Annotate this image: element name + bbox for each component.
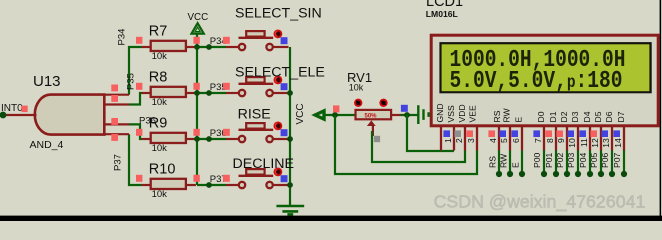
svg-text:D3: D3 bbox=[570, 111, 580, 122]
svg-text:5.0V,5.0V,p:180: 5.0V,5.0V,p:180 bbox=[450, 67, 623, 95]
node pin 5 terminal bbox=[507, 171, 513, 177]
junction rail row 3 bbox=[194, 136, 200, 142]
svg-text:RW: RW bbox=[502, 107, 512, 122]
svg-text:GND: GND bbox=[435, 103, 445, 122]
svg-text:10k: 10k bbox=[152, 51, 168, 62]
LCD pin 13 logic square bbox=[601, 130, 608, 137]
svg-text:10: 10 bbox=[567, 138, 577, 148]
svg-text:RS: RS bbox=[492, 110, 502, 122]
LCD U-LCD1 body bbox=[431, 35, 658, 126]
LCD pin 10 logic square bbox=[567, 130, 574, 137]
LCD pin 5 logic square bbox=[499, 130, 506, 137]
LCD screen bbox=[439, 42, 651, 93]
wire LCD pin 12 down bbox=[600, 150, 602, 174]
wire LCD pin 7 down bbox=[543, 150, 545, 174]
power symbol VCC (RV1, left arrow) bbox=[314, 110, 325, 120]
RV1 knob right bbox=[379, 99, 387, 107]
svg-text:AND_4: AND_4 bbox=[30, 139, 64, 151]
svg-text:10k: 10k bbox=[152, 97, 168, 108]
LCD pin 1 stub bbox=[453, 127, 455, 151]
svg-text:3: 3 bbox=[466, 138, 476, 143]
node pin 14 terminal bbox=[621, 171, 627, 177]
svg-text:E: E bbox=[510, 162, 520, 168]
junction dot2 row 2 bbox=[206, 90, 212, 96]
svg-text:R10: R10 bbox=[149, 162, 176, 178]
resistor R8 bbox=[142, 87, 196, 97]
svg-text:CSDN @weixin_47626041: CSDN @weixin_47626041 bbox=[434, 192, 646, 213]
svg-text:INT0: INT0 bbox=[1, 103, 23, 114]
gate U13 input pin 1 stub bbox=[104, 94, 129, 96]
logic square R9 pin1 bbox=[136, 129, 142, 136]
svg-text:P05: P05 bbox=[589, 152, 599, 168]
svg-text:P34: P34 bbox=[117, 29, 128, 46]
node pin 4 terminal bbox=[496, 171, 502, 177]
junction column row 4 bbox=[287, 182, 293, 188]
svg-text:P06: P06 bbox=[600, 152, 610, 168]
wire LCD pin 13 down bbox=[611, 150, 613, 174]
svg-text:11: 11 bbox=[579, 138, 589, 147]
junction dot2 row 1 bbox=[206, 44, 212, 50]
button SELECT_ELE bbox=[226, 77, 289, 96]
logic square R7 pin1 bbox=[136, 37, 142, 44]
wire LCD pin1 (VSS to ground) bbox=[407, 115, 454, 151]
junction rail row 2 bbox=[194, 90, 200, 96]
ground (LCD, rotated) bbox=[418, 105, 428, 124]
logic square gate input 3 bbox=[111, 118, 118, 125]
gate U13 input pin 3 stub bbox=[104, 123, 129, 125]
LCD pin 7 stub bbox=[543, 127, 545, 151]
svg-text:14: 14 bbox=[613, 138, 623, 148]
junction column row 2 bbox=[287, 90, 293, 96]
svg-text:4: 4 bbox=[488, 138, 498, 143]
LCD pin 9 stub bbox=[566, 127, 568, 151]
LCD pin 3 stub bbox=[476, 127, 478, 151]
svg-text:SELECT_ELE: SELECT_ELE bbox=[235, 64, 325, 80]
svg-text:D4: D4 bbox=[582, 111, 592, 122]
LCD pin 13 stub bbox=[611, 127, 613, 151]
logic square RV1 wiper (gray) bbox=[374, 136, 380, 142]
wire LCD pin 14 down bbox=[623, 150, 625, 174]
LCD pin 1 logic square bbox=[443, 130, 450, 137]
logic square R10 pin1 bbox=[136, 175, 142, 182]
svg-text:7: 7 bbox=[533, 138, 543, 143]
node pin 10 terminal bbox=[575, 171, 581, 177]
LCD pin 4 logic square bbox=[488, 130, 495, 137]
svg-text:2: 2 bbox=[454, 138, 464, 143]
svg-text:P35: P35 bbox=[126, 73, 137, 90]
LCD pin 9 logic square bbox=[556, 130, 563, 137]
button SELECT_SIN bbox=[226, 31, 289, 50]
logic square gate input 4 bbox=[111, 134, 118, 141]
junction column row 3 bbox=[287, 136, 293, 142]
svg-text:P01: P01 bbox=[544, 152, 554, 168]
wire LCD pin 11 down bbox=[589, 150, 591, 174]
svg-text:10k: 10k bbox=[349, 83, 364, 93]
actuator icon DECLINE bbox=[274, 168, 283, 177]
logic square R8 pin1 bbox=[136, 83, 142, 90]
logic square label P35 bbox=[223, 83, 230, 90]
wire LCD pin 6 down bbox=[521, 150, 523, 174]
junction dot2 row 3 bbox=[206, 136, 212, 142]
svg-text:VEE: VEE bbox=[467, 105, 477, 122]
LCD pin 3 logic square bbox=[466, 130, 473, 137]
node pin 13 terminal bbox=[609, 171, 615, 177]
wire LCD pin2 (VDD to wiper) bbox=[372, 131, 465, 162]
LCD pin 14 stub bbox=[623, 127, 625, 151]
svg-text:P02: P02 bbox=[555, 152, 565, 168]
node pin 6 terminal bbox=[519, 171, 525, 177]
junction VCC/pin3 branch bbox=[332, 112, 338, 118]
wire net P35 (gate pin2 to R8) bbox=[129, 93, 142, 105]
wire LCD pin 4 down bbox=[498, 150, 500, 174]
svg-text:U13: U13 bbox=[33, 73, 61, 90]
logic square button SELECT_SIN bbox=[281, 37, 288, 44]
svg-text:RW: RW bbox=[498, 153, 508, 168]
resistor R7 bbox=[142, 41, 196, 51]
resistor R10 bbox=[142, 179, 196, 189]
power symbol VCC (top rail) bbox=[192, 23, 204, 33]
LCD pin 7 logic square bbox=[533, 130, 540, 137]
wire VCC to RV1 bbox=[325, 114, 356, 116]
logic square gate input 2 bbox=[111, 95, 118, 102]
node pin 9 terminal bbox=[564, 171, 570, 177]
wire LCD pin 8 down bbox=[555, 150, 557, 174]
svg-text:E: E bbox=[514, 117, 524, 123]
svg-text:10k: 10k bbox=[152, 143, 168, 154]
logic square button RISE bbox=[281, 129, 288, 136]
node pin 11 terminal bbox=[587, 171, 593, 177]
svg-text:R8: R8 bbox=[149, 70, 168, 86]
svg-text:RS: RS bbox=[487, 156, 497, 168]
logic square label P37 bbox=[223, 175, 230, 182]
svg-text:RISE: RISE bbox=[238, 106, 271, 122]
LCD pin 4 stub bbox=[498, 127, 500, 151]
svg-text:9: 9 bbox=[556, 138, 566, 143]
wire VCC rail vertical bbox=[196, 34, 198, 185]
logic square gate input 1 bbox=[111, 85, 118, 92]
wire row P37 (rail to button) bbox=[197, 184, 226, 186]
potentiometer RV1 bbox=[356, 110, 401, 136]
wire LCD pin 9 down bbox=[566, 150, 568, 174]
LCD pin 6 stub bbox=[521, 127, 523, 151]
button DECLINE bbox=[226, 169, 289, 188]
gate U13 output stub bbox=[6, 114, 36, 116]
window edge line bbox=[660, 0, 662, 221]
AND gate U13 (AND_4, mirrored) bbox=[35, 95, 105, 135]
LCD pin 14 logic square bbox=[613, 130, 620, 137]
svg-text:R9: R9 bbox=[149, 116, 168, 132]
wire row P36 (rail to button) bbox=[197, 138, 226, 140]
LCD pin 10 stub bbox=[577, 127, 579, 151]
svg-text:LM016L: LM016L bbox=[426, 9, 458, 19]
wire button common column bbox=[289, 47, 291, 206]
node INT0 terminal bbox=[0, 112, 6, 119]
wire net P36 (gate pin3 to R9) bbox=[129, 124, 142, 139]
logic square RV1 pin1 bbox=[333, 105, 339, 112]
actuator icon SELECT_ELE bbox=[274, 76, 283, 85]
logic square button DECLINE bbox=[281, 175, 288, 182]
junction rail row 1 bbox=[194, 44, 200, 50]
gate U13 input pin 4 stub bbox=[104, 133, 129, 135]
wire net P37 (gate pin4 to R10) bbox=[129, 134, 142, 185]
svg-text:P04: P04 bbox=[578, 152, 588, 168]
svg-text:D2: D2 bbox=[559, 111, 569, 122]
svg-text:12: 12 bbox=[590, 138, 600, 148]
logic square label P34 bbox=[223, 37, 230, 44]
LCD pin 2 logic square bbox=[454, 130, 461, 137]
svg-text:10k: 10k bbox=[152, 189, 168, 200]
wire row P34 (rail to button) bbox=[197, 46, 226, 48]
LCD pin 11 logic square bbox=[579, 130, 586, 137]
actuator icon SELECT_SIN bbox=[274, 30, 283, 39]
wire LCD pin 5 down bbox=[509, 150, 511, 174]
resistor R9 bbox=[142, 133, 196, 143]
logic square button SELECT_ELE bbox=[281, 83, 288, 90]
svg-text:DECLINE: DECLINE bbox=[233, 156, 295, 172]
svg-text:D6: D6 bbox=[604, 111, 614, 122]
svg-text:VCC: VCC bbox=[188, 12, 209, 23]
RV1 knob left bbox=[354, 99, 362, 107]
wire net P34 (gate pin1 to R7) bbox=[129, 47, 142, 95]
node pin 12 terminal bbox=[598, 171, 604, 177]
wire INT0 bbox=[0, 114, 7, 116]
LCD pin 12 logic square bbox=[590, 130, 597, 137]
svg-text:50%: 50% bbox=[365, 113, 378, 119]
wire row P35 (rail to button) bbox=[197, 92, 226, 94]
logic square label P36 bbox=[223, 129, 230, 136]
svg-text:13: 13 bbox=[601, 138, 611, 148]
svg-text:P03: P03 bbox=[566, 152, 576, 168]
wire LCD pin3 (VEE to VCC) bbox=[335, 115, 477, 174]
svg-text:5: 5 bbox=[499, 138, 509, 143]
gate U13 input pin 2 stub bbox=[104, 103, 129, 105]
actuator icon RISE bbox=[274, 122, 283, 131]
svg-text:1: 1 bbox=[443, 138, 453, 143]
logic square rail row 1 bbox=[193, 37, 199, 44]
svg-text:VSS: VSS bbox=[446, 105, 456, 122]
junction ground branch bbox=[404, 112, 410, 118]
LCD pin 8 stub bbox=[555, 127, 557, 151]
wire LCD pin 10 down bbox=[577, 150, 579, 174]
svg-text:P37: P37 bbox=[113, 154, 124, 171]
svg-text:P00: P00 bbox=[532, 152, 542, 168]
svg-text:6: 6 bbox=[511, 138, 521, 143]
LCD pin separator left bbox=[440, 127, 442, 151]
svg-text:VDD: VDD bbox=[457, 104, 467, 122]
LCD pin 8 logic square bbox=[545, 130, 552, 137]
svg-text:D7: D7 bbox=[616, 111, 626, 122]
LCD pin 11 stub bbox=[589, 127, 591, 151]
junction dot2 row 4 bbox=[206, 182, 212, 188]
logic square rail row 4 bbox=[193, 175, 199, 182]
LCD pin 12 stub bbox=[600, 127, 602, 151]
node pin 7 terminal bbox=[541, 171, 547, 177]
logic square rail row 2 bbox=[193, 83, 199, 90]
bottom bar bbox=[0, 216, 662, 221]
logic square RV1 pin2 (blue) bbox=[401, 105, 408, 112]
logic square INT0 bbox=[21, 106, 27, 113]
LCD pin 5 stub bbox=[509, 127, 511, 151]
svg-text:SELECT_SIN: SELECT_SIN bbox=[235, 5, 322, 21]
wire RV1 right to ground bbox=[401, 114, 418, 116]
ground (button column) bbox=[276, 206, 304, 214]
svg-text:R7: R7 bbox=[149, 24, 168, 40]
svg-text:D0: D0 bbox=[536, 111, 546, 122]
button RISE bbox=[226, 123, 289, 142]
LCD pin 2 stub bbox=[464, 127, 466, 151]
svg-text:P07: P07 bbox=[612, 152, 622, 168]
LCD pin 6 logic square bbox=[511, 130, 518, 137]
svg-text:D5: D5 bbox=[593, 111, 603, 122]
svg-text:VCC: VCC bbox=[295, 103, 306, 124]
svg-text:8: 8 bbox=[545, 138, 555, 143]
node pin 8 terminal bbox=[553, 171, 559, 177]
svg-text:D1: D1 bbox=[548, 111, 558, 122]
logic square rail row 3 bbox=[193, 129, 199, 136]
